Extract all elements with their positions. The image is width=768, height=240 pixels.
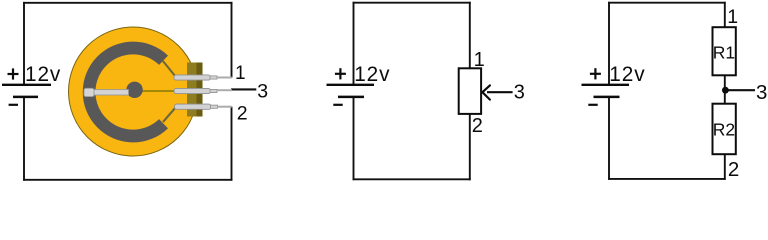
potentiometer VR1 trace to pin 2 (163, 107, 176, 122)
junction node dot (722, 87, 729, 94)
svg-text:R1: R1 (713, 43, 735, 63)
battery B2 minus sign (333, 104, 342, 106)
wire: circuit 2 right upper (469, 2, 471, 69)
wire: circuit 3 left lower (608, 97, 610, 180)
wire: circuit 1 wiper tap to label 3 (231, 88, 256, 90)
battery B3 12v (582, 68, 630, 105)
wire: circuit 3 top (608, 2, 726, 4)
potentiometer VR1 resistive track ring (83, 42, 168, 143)
wire: circuit 2 top (353, 2, 471, 4)
svg-text:2: 2 (728, 158, 739, 181)
wire: circuit 1 top (23, 2, 232, 4)
potentiometer VR1 trace to pin 1 (163, 61, 176, 77)
resistor R2 (713, 104, 736, 155)
wire: circuit 2 left upper (353, 2, 355, 85)
wire: circuit 2 bottom (353, 178, 471, 180)
wire: R2 to bottom (724, 154, 726, 180)
pin 1 of VR1 (174, 75, 232, 80)
wire: circuit 3 right upper (724, 2, 726, 27)
wire: circuit 1 bottom (23, 179, 232, 181)
svg-text:12v: 12v (609, 63, 645, 86)
battery B3 positive plate (582, 84, 630, 86)
battery B3 negative plate (594, 96, 620, 99)
battery B3 minus sign (588, 104, 597, 106)
potentiometer VR1 wiper shaft (126, 82, 142, 98)
battery B1 positive plate (2, 84, 51, 86)
battery B2 12v (327, 68, 375, 105)
wire: R1 to junction (724, 75, 726, 103)
svg-text:3: 3 (756, 81, 767, 104)
svg-text:3: 3 (514, 81, 525, 103)
potentiometer symbol VR (circuit 2) (459, 68, 481, 114)
wire: circuit 1 right lower (from pin 2) (231, 107, 233, 181)
svg-text:2: 2 (472, 115, 483, 137)
wire: circuit 3 left upper (608, 2, 610, 85)
svg-text:1: 1 (474, 49, 485, 71)
wire: circuit 1 right upper (to pin 1) (231, 2, 233, 78)
svg-text:12v: 12v (25, 63, 61, 86)
battery B2 plus sign (335, 73, 346, 75)
wire: circuit 1 left lower (23, 97, 25, 181)
wire: circuit 2 left lower (353, 97, 355, 180)
svg-text:3: 3 (257, 81, 268, 103)
svg-text:12v: 12v (354, 63, 390, 86)
svg-text:R2: R2 (713, 119, 735, 139)
svg-text:1: 1 (235, 63, 246, 84)
wire: circuit 1 left upper (23, 2, 25, 85)
battery B1 12v (2, 68, 51, 104)
pin 3 of VR1 (174, 88, 232, 93)
battery B1 minus sign (9, 104, 18, 106)
battery B1 plus sign (8, 73, 19, 75)
potentiometer VR1 wiper arm bar (88, 90, 129, 95)
potentiometer VR1 terminal block (187, 63, 197, 117)
wire: circuit 3 bottom (608, 178, 726, 180)
svg-text:2: 2 (237, 102, 248, 124)
pin 2 of VR1 (175, 104, 232, 109)
battery B3 plus sign (590, 73, 601, 75)
wire: junction to label 3 (725, 89, 755, 91)
battery B2 negative plate (338, 96, 364, 99)
wiper arrow (circuit 2) (482, 85, 512, 99)
battery B2 positive plate (327, 84, 375, 86)
battery B1 negative plate (13, 96, 38, 99)
svg-text:1: 1 (727, 6, 738, 28)
wire: circuit 2 right lower (469, 114, 471, 180)
potentiometer VR1 trace to pin 3 (141, 90, 175, 92)
resistor R1 (713, 27, 736, 75)
potentiometer VR1 body (69, 27, 198, 156)
